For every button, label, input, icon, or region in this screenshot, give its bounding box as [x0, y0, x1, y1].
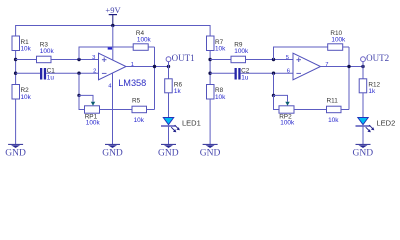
wire op-amp output row — [126, 66, 169, 68]
resistor R11 — [327, 97, 342, 124]
svg-text:3: 3 — [92, 55, 95, 61]
wire left rail R1 to R2 — [15, 51, 17, 85]
terminal OUT2 — [361, 53, 390, 67]
wire R11 right stub — [341, 109, 349, 111]
wire op-amp V+ pin8 — [112, 26, 114, 61]
wire feedback vertical R10/R11 — [348, 47, 350, 110]
svg-text:R11: R11 — [327, 97, 339, 104]
junction pin3 node — [77, 58, 80, 61]
svg-text:2: 2 — [93, 69, 96, 75]
LED LED1 — [161, 118, 201, 133]
terminal OUT1 — [166, 53, 195, 67]
wire R9 left stub — [210, 59, 231, 61]
junction output / OUT2-R12 — [361, 65, 364, 68]
svg-text:6: 6 — [287, 69, 290, 75]
pin number 8 — [108, 48, 112, 50]
junction pin2 node — [77, 72, 80, 75]
svg-text:OUT1: OUT1 — [172, 53, 195, 63]
op-amp U1 LM358 — [99, 53, 147, 88]
wire right rail drop to R7 — [209, 25, 211, 36]
svg-text:5: 5 — [286, 55, 289, 61]
resistor R8 — [207, 85, 227, 101]
trimmer RP1 — [85, 102, 101, 127]
junction output / feedback right — [347, 65, 350, 68]
resistor R3 — [37, 41, 55, 62]
junction power-rail — [111, 24, 114, 27]
junction pin5 node — [272, 58, 275, 61]
svg-text:GND: GND — [200, 149, 221, 159]
wire RP2 left terminal — [274, 95, 280, 109]
wire R3 left stub — [16, 59, 37, 61]
resistor R5 — [132, 97, 147, 124]
power +9V — [105, 5, 121, 25]
svg-text:R5: R5 — [132, 97, 141, 104]
resistor R1 — [12, 36, 32, 52]
svg-text:10k: 10k — [328, 117, 339, 124]
svg-text:10k: 10k — [215, 45, 226, 52]
wire RP1 wiper jog — [79, 95, 93, 101]
wire output to R12 — [362, 67, 364, 79]
junction left rail / C1 row — [14, 72, 17, 75]
junction output / OUT1-R6 — [167, 65, 170, 68]
wire RP1 to R5 — [100, 109, 133, 111]
wire R10 to output node — [343, 46, 349, 48]
wire pin5 node up to R10 row — [274, 47, 328, 60]
junction RP1 node — [77, 94, 80, 97]
junction RP2 node — [272, 94, 275, 97]
svg-text:GND: GND — [353, 149, 374, 159]
wire R3 to op-amp pin3 — [51, 59, 99, 61]
svg-text:GND: GND — [5, 149, 26, 159]
wire output to R6 — [168, 67, 170, 79]
wire R5 right stub — [147, 109, 155, 111]
ground op-amp pin4 — [102, 144, 123, 158]
wire RP2 wiper jog — [274, 95, 288, 101]
junction output / feedback — [153, 65, 156, 68]
op-amp U2 — [293, 53, 321, 80]
svg-text:100k: 100k — [234, 48, 249, 55]
wire RP2 to R11 — [294, 109, 327, 111]
resistor R10 — [328, 30, 346, 50]
svg-text:LED2: LED2 — [377, 118, 396, 127]
trimmer RP2 — [279, 102, 295, 127]
junction pin6 node — [272, 72, 275, 75]
svg-text:100k: 100k — [331, 37, 346, 44]
wire left rail top to R1 — [15, 25, 17, 36]
wire right rail R7 to R8 — [209, 51, 211, 85]
svg-text:10k: 10k — [215, 94, 226, 101]
wire R2 to ground — [15, 99, 17, 144]
wire pin6 node down to RP2 — [273, 73, 275, 95]
ground under LED1 — [158, 144, 179, 158]
svg-text:1u: 1u — [241, 74, 249, 81]
wire C2 left stub — [210, 72, 234, 74]
wire RP1 left terminal — [79, 95, 85, 109]
junction left rail / R3 row — [14, 58, 17, 61]
svg-text:GND: GND — [102, 149, 123, 159]
wire R9 to op-amp pin5 — [246, 59, 294, 61]
resistor R2 — [12, 85, 32, 101]
ground under R2 — [5, 144, 26, 158]
junction right rail / C2 row — [208, 72, 211, 75]
wire C2 to op-amp pin6 — [241, 72, 293, 74]
resistor R7 — [207, 36, 227, 52]
svg-text:100k: 100k — [40, 48, 55, 55]
svg-text:+9V: +9V — [105, 5, 121, 15]
wire R12 to LED2 — [362, 93, 364, 118]
wire C1 to op-amp pin2 — [46, 72, 98, 74]
wire R4 to output node — [148, 46, 154, 48]
ground under LED2 — [353, 144, 374, 158]
wire C1 left stub — [16, 72, 40, 74]
svg-text:100k: 100k — [86, 120, 101, 127]
svg-text:1k: 1k — [368, 88, 376, 95]
svg-text:10k: 10k — [21, 45, 32, 52]
wire op-amp GND pin4 — [112, 73, 114, 144]
resistor R4 — [133, 30, 151, 50]
wire R6 to LED1 — [168, 93, 170, 118]
svg-text:LED1: LED1 — [182, 118, 201, 127]
svg-text:OUT2: OUT2 — [366, 53, 389, 63]
wire feedback vertical R4/R5 — [154, 47, 156, 110]
wire LED1 to ground — [168, 126, 170, 144]
resistor R12 — [359, 79, 380, 95]
junction right rail / R9 row — [208, 58, 211, 61]
resistor R9 — [231, 41, 249, 62]
wire op-amp U2 output row — [321, 66, 364, 68]
capacitor C1 — [40, 68, 55, 82]
wire pin2 node down to RP1 — [78, 73, 80, 95]
svg-text:100k: 100k — [280, 120, 295, 127]
resistor R6 — [165, 79, 183, 95]
svg-text:1u: 1u — [47, 74, 55, 81]
ground under R8 — [200, 144, 221, 158]
svg-text:1k: 1k — [174, 88, 182, 95]
wire top power rail — [16, 25, 211, 27]
wire pin3 node up to R4 row — [79, 47, 133, 60]
capacitor C2 — [235, 68, 250, 82]
svg-text:10k: 10k — [21, 94, 32, 101]
svg-text:GND: GND — [158, 149, 179, 159]
svg-text:100k: 100k — [137, 37, 152, 44]
wire LED2 to ground — [362, 126, 364, 144]
LED LED2 — [356, 118, 396, 133]
svg-text:10k: 10k — [134, 117, 145, 124]
svg-text:LM358: LM358 — [118, 78, 146, 88]
wire R8 to ground — [209, 99, 211, 144]
